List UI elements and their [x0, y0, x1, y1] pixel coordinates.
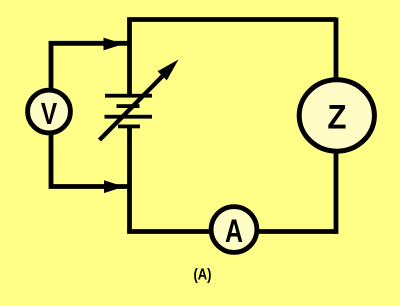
wire: bottom side, right segment from ammeter to corner: [258, 229, 336, 234]
wire: top side of main loop: [127, 17, 336, 22]
wire: left vertical below battery to bottom-left corner: [127, 126, 132, 232]
wire: left vertical (top wire to battery top plate): [127, 22, 132, 97]
wire: right vertical (top wire down to Z): [334, 18, 339, 80]
svg-text:Z: Z: [327, 97, 346, 136]
svg-text:(A): (A): [193, 267, 211, 284]
ammeter A: [211, 207, 257, 253]
variable-adjustment arrow through battery B1: [100, 60, 179, 141]
battery B1 (variable voltage source plates): [105, 94, 153, 129]
wire: voltmeter branch lower (with connection arrow into node): [49, 134, 128, 194]
voltmeter V: [28, 90, 71, 133]
wire: bottom side, left segment to ammeter: [127, 229, 210, 234]
wire: right vertical (Z down to bottom-right corner): [334, 152, 339, 234]
svg-text:A: A: [225, 214, 243, 250]
wire: voltmeter branch upper (with connection arrow into node): [49, 38, 128, 90]
impedance Z: [299, 80, 374, 151]
svg-text:V: V: [41, 96, 58, 130]
